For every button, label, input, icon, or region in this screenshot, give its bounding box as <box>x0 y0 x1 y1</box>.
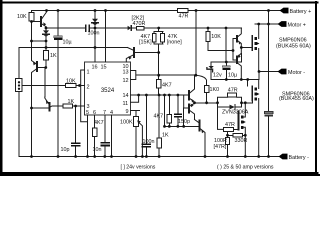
transistor Q6 <box>188 91 190 100</box>
wire pin14 rail y95 <box>131 94 189 96</box>
wire base row y126.4 <box>164 95 166 126</box>
bottom black band <box>0 174 320 176</box>
svg-text:9: 9 <box>126 109 129 115</box>
transistor Q8 <box>198 121 200 131</box>
svg-text:10µ: 10µ <box>63 40 72 46</box>
wire 10K drive column <box>207 28 209 32</box>
svg-text:4K7: 4K7 <box>162 82 172 88</box>
svg-text:470R: 470R <box>133 21 146 27</box>
wire: top supply rail <box>32 10 281 12</box>
wire pin9 to pot <box>131 109 140 111</box>
wire base Q1 <box>32 21 41 23</box>
wire pin15 column <box>105 11 107 63</box>
svg-text:1K: 1K <box>68 99 75 105</box>
svg-text:15: 15 <box>100 65 106 71</box>
svg-text:13: 13 <box>123 70 129 76</box>
svg-text:[47R]: [47R] <box>214 144 227 150</box>
svg-text:12v: 12v <box>213 73 222 79</box>
svg-text:( ) 25 & 50 amp versions: ( ) 25 & 50 amp versions <box>217 165 274 171</box>
svg-text:1K: 1K <box>50 53 57 59</box>
svg-text:4K7: 4K7 <box>154 114 164 120</box>
capacitor C 100n on y28 <box>85 25 87 32</box>
diode D1 below Q1 <box>45 28 47 30</box>
resistor R 1K0 <box>196 75 207 85</box>
svg-text:[none]: [none] <box>167 39 182 45</box>
svg-text:Motor -: Motor - <box>288 70 305 76</box>
svg-text:10K: 10K <box>66 78 76 84</box>
svg-text:10µ: 10µ <box>228 73 237 79</box>
resistor pair 4K7/47K parallel <box>158 28 160 32</box>
potentiometer 100K <box>134 117 139 127</box>
wire left column x31.5 <box>31 22 33 61</box>
svg-text:100n: 100n <box>143 139 155 145</box>
diode D3 in y28 rail <box>128 26 132 30</box>
svg-text:4K7: 4K7 <box>94 120 104 126</box>
transistor Q10 by pin10 <box>133 48 135 57</box>
wire driver base join <box>232 39 234 61</box>
svg-text:47R: 47R <box>225 122 235 128</box>
wire battery column x196 <box>195 11 197 76</box>
mosfet Q9 ZVN3306A <box>238 112 240 130</box>
resistor R 4K7 upper <box>158 75 160 79</box>
wire pin4 to gnd <box>111 115 113 157</box>
svg-text:[ ] 24v versions: [ ] 24v versions <box>121 165 156 171</box>
svg-text:100K: 100K <box>120 119 133 125</box>
transistor Q4 upper driver <box>236 36 238 42</box>
svg-text:47R: 47R <box>179 13 189 19</box>
resistor R 10K drive <box>206 32 210 42</box>
resistor R 100R <box>225 138 229 145</box>
diode D2 on top rail col x95 <box>94 11 96 20</box>
wire pot wiper to pin 2 <box>22 85 66 87</box>
svg-text:150p: 150p <box>178 119 190 125</box>
resistor R 1K lower <box>158 95 160 138</box>
resistor R 47R zvn gate <box>218 107 224 129</box>
mosfet Q11 SMP60N06 upper <box>251 36 253 50</box>
wire pin5 to gnd <box>87 115 89 157</box>
svg-text:Battery +: Battery + <box>290 9 312 15</box>
svg-text:10n: 10n <box>93 147 102 153</box>
diode D gate antiparallel <box>218 103 230 107</box>
wire pins 13/12 bracket <box>131 71 136 80</box>
capacitor C 10n pin7 <box>104 115 106 142</box>
capacitor C 150p <box>177 95 179 114</box>
svg-text:[15K]: [15K] <box>139 39 152 45</box>
transistor Q1 <box>40 17 42 26</box>
resistor R 10K top-left <box>31 11 33 13</box>
resistor R 47R supply <box>178 9 189 13</box>
resistor R 10K wiper <box>66 83 77 87</box>
svg-text:Battery -: Battery - <box>289 155 310 161</box>
svg-text:330R: 330R <box>235 138 248 144</box>
tag battery - <box>279 154 288 160</box>
svg-text:14: 14 <box>123 93 129 99</box>
svg-text:1K0: 1K0 <box>210 87 220 93</box>
wire x44.5 <box>44 68 46 98</box>
resistor R 470R <box>137 26 144 29</box>
wire output rail y75.2 <box>136 74 196 76</box>
resistor R 330R <box>227 132 229 138</box>
svg-text:(BUK455 60A): (BUK455 60A) <box>276 43 311 49</box>
transistor Q2 <box>36 62 38 71</box>
svg-text:10p: 10p <box>61 147 70 153</box>
svg-text:(BUK455 60A): (BUK455 60A) <box>279 96 314 102</box>
transistor Q5 lower driver <box>236 57 238 64</box>
wire zener rail y62 <box>211 61 241 63</box>
capacitor C1 10u <box>57 11 59 36</box>
capacitor C snubber <box>268 11 270 112</box>
resistor R 47R gate with diode <box>218 97 228 103</box>
wire gate drive y102.8 <box>195 102 218 104</box>
svg-text:Motor +: Motor + <box>288 23 306 29</box>
tag motor - <box>278 69 287 75</box>
mosfet Q12 SMP60N06 lower <box>251 87 253 101</box>
svg-text:2: 2 <box>87 85 90 91</box>
wire: left pot column <box>18 48 20 79</box>
connector J1 (3-pin) <box>16 79 22 92</box>
wire motor- lower y79.5 <box>211 79 259 81</box>
border frame <box>0 0 318 176</box>
capacitor C 100n lower <box>145 95 147 144</box>
svg-text:10K: 10K <box>211 34 221 40</box>
svg-text:3524: 3524 <box>101 88 115 94</box>
wire: motor+ rail <box>255 23 278 25</box>
wire m2 drain stub <box>247 80 249 87</box>
wire motor- tag <box>259 71 278 73</box>
svg-text:47R: 47R <box>228 87 238 93</box>
wire pin1 loop <box>81 70 88 122</box>
svg-text:11: 11 <box>123 101 129 107</box>
wire: vref rail y47.5 <box>20 47 128 49</box>
capacitor C 10p <box>75 106 77 143</box>
zener D 12v <box>210 62 212 66</box>
wire gate M1 <box>241 47 251 49</box>
wire: mid supply rail y28 <box>46 27 241 29</box>
wire: ground rail <box>19 156 279 158</box>
transistor Q3 <box>48 103 50 111</box>
resistor R 1K left <box>44 51 49 61</box>
wire pin16 column <box>94 28 96 62</box>
resistor R 4K7 pin6 <box>94 115 96 128</box>
resistor R 4K7 mid <box>168 95 170 115</box>
svg-text:16: 16 <box>91 65 97 71</box>
wire y50.5 to driver bases <box>208 50 233 52</box>
resistor R 1K pin3 <box>63 104 73 108</box>
wire y41 <box>32 40 47 42</box>
svg-text:12: 12 <box>123 78 129 84</box>
IC U1 3524 body <box>85 62 131 115</box>
svg-text:1K: 1K <box>162 132 169 138</box>
wire x226 column <box>225 28 227 62</box>
svg-text:10K: 10K <box>17 14 27 20</box>
capacitor C 10u gate supply <box>225 62 227 66</box>
transistor Q7 <box>188 104 190 112</box>
tag battery + <box>278 8 289 160</box>
wire pins 14/11 bracket <box>131 95 139 102</box>
svg-text:ZVN3306A: ZVN3306A <box>222 109 249 115</box>
tag motor + <box>278 21 287 27</box>
svg-text:1: 1 <box>87 70 90 76</box>
svg-text:100n: 100n <box>88 31 100 37</box>
